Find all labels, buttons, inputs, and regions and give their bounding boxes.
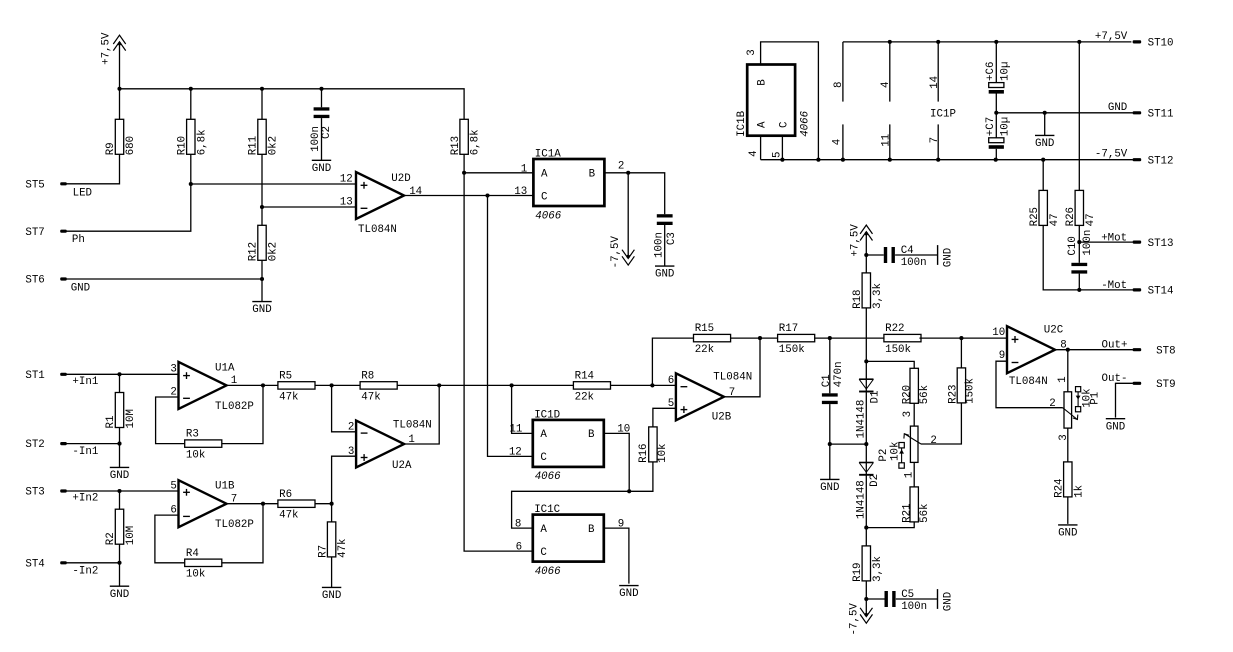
capacitor C5	[885, 591, 888, 607]
wire +Mot net	[1079, 241, 1133, 243]
wire C10 bottom lead	[1078, 274, 1080, 290]
wire R14 to U2B	[611, 384, 676, 386]
analog switch IC1C	[533, 515, 604, 562]
analog switch IC1A	[533, 159, 604, 206]
pin 8 stub IC1P	[842, 42, 844, 102]
svg-text:TL082P: TL082P	[215, 519, 254, 531]
ground below R7	[322, 586, 341, 588]
svg-text:R13: R13	[450, 136, 462, 155]
svg-text:R16: R16	[638, 443, 650, 462]
wire IC1D pin11 drop	[512, 385, 533, 433]
wire R19 top lead	[865, 528, 867, 546]
capacitor C10	[1071, 263, 1087, 266]
svg-text:ST8: ST8	[1156, 345, 1175, 357]
node R11-R12	[260, 205, 264, 209]
svg-text:GND: GND	[1058, 528, 1077, 540]
svg-text:4: 4	[832, 139, 844, 145]
pin ST2	[60, 442, 67, 445]
node +7,5V rail x996	[994, 40, 998, 44]
resistor R21	[910, 487, 918, 522]
svg-text:10M: 10M	[125, 409, 137, 428]
svg-text:1: 1	[521, 163, 527, 175]
pin 4b stub IC1P	[889, 42, 891, 102]
svg-text:470n: 470n	[833, 361, 845, 387]
svg-text:2: 2	[618, 161, 624, 173]
power -7,5V arrow at R19	[865, 613, 868, 616]
svg-text:2: 2	[1049, 398, 1055, 410]
wire to U2A +input	[332, 456, 357, 504]
wire R18 bottom lead	[865, 308, 867, 362]
node In1-R1	[117, 372, 121, 376]
svg-text:GND: GND	[820, 482, 839, 494]
resistor R17	[778, 334, 815, 341]
svg-text:150k: 150k	[964, 378, 976, 404]
svg-text:R21: R21	[902, 503, 914, 522]
analog switch IC1B	[747, 65, 795, 136]
wire R7 top lead	[331, 504, 333, 522]
resistor R22	[884, 334, 921, 341]
analog switch IC1D	[533, 420, 604, 467]
pin 4 stub IC1P	[842, 124, 844, 159]
svg-text:R9: R9	[105, 142, 117, 155]
svg-text:10k: 10k	[186, 450, 205, 462]
op-amp U2A	[356, 421, 404, 468]
svg-text:ST2: ST2	[25, 439, 44, 451]
svg-text:R7: R7	[317, 545, 329, 558]
resistor R23	[957, 368, 965, 403]
wire R4 to out	[222, 504, 263, 563]
node bus-R10	[189, 87, 193, 91]
wire U2C feedback	[996, 361, 1063, 408]
svg-text:R15: R15	[695, 323, 714, 335]
wire U2C output	[1055, 349, 1133, 351]
wire U2B +in to R16	[653, 408, 676, 427]
svg-text:3: 3	[1058, 434, 1070, 440]
wire P1 to R24	[1067, 428, 1069, 462]
svg-text:56k: 56k	[919, 385, 931, 404]
pin ST7	[60, 230, 67, 233]
svg-text:-7,5V: -7,5V	[1095, 149, 1128, 161]
svg-text:4066: 4066	[799, 110, 811, 136]
node GND net ST6	[260, 277, 264, 281]
svg-text:A: A	[541, 168, 548, 180]
pin ST14	[1133, 288, 1142, 291]
svg-text:R22: R22	[885, 323, 904, 335]
svg-text:+In1: +In1	[72, 376, 98, 388]
wire R19 bottom lead	[865, 581, 867, 599]
resistor R9	[115, 119, 123, 154]
svg-text:B: B	[756, 79, 768, 86]
node -In2	[117, 561, 121, 565]
wire IC1C output	[604, 528, 629, 584]
wire R25 top lead	[1042, 160, 1044, 191]
svg-text:100n: 100n	[653, 232, 665, 258]
svg-text:IC1D: IC1D	[534, 409, 560, 421]
svg-text:C1: C1	[821, 374, 833, 387]
node -Mot	[1077, 288, 1081, 292]
pin ST1	[60, 373, 67, 376]
node R6-R7	[330, 502, 334, 506]
wire R13 bottom lead	[463, 154, 465, 173]
svg-text:U2B: U2B	[712, 411, 732, 423]
wire R11 bottom lead	[261, 154, 263, 207]
wire R2 gnd drop	[119, 563, 121, 586]
wire R1 bottom lead	[119, 428, 121, 444]
svg-text:D2: D2	[869, 474, 881, 487]
svg-text:5: 5	[170, 480, 176, 492]
pin ST9	[1133, 382, 1142, 385]
svg-text:IC1A: IC1A	[535, 148, 561, 160]
svg-text:14: 14	[929, 76, 941, 89]
node D1-D2	[864, 442, 868, 446]
pin ST3	[60, 489, 67, 492]
svg-text:1: 1	[1057, 376, 1069, 382]
node -7,5V rail x1043	[1041, 158, 1045, 162]
pin ST6	[60, 277, 67, 280]
node R13-IC1A	[462, 171, 466, 175]
node -7,5V rail x818	[816, 158, 820, 162]
wire D2 vertical	[865, 444, 867, 527]
ground at Out-	[1106, 418, 1125, 420]
wire R12 to GND net	[261, 260, 263, 279]
wire U1B feedback	[155, 515, 185, 563]
wire R21 bottom lead	[866, 522, 914, 528]
node U2A out fb	[437, 383, 441, 387]
op-amp U2C	[1007, 326, 1055, 373]
node C1 tap	[828, 336, 832, 340]
svg-text:13: 13	[514, 186, 527, 198]
svg-text:U2D: U2D	[391, 173, 410, 185]
wire GND net ST6	[67, 278, 263, 280]
pin 11 stub IC1P	[889, 124, 891, 159]
wire gnd drop ST11	[1044, 113, 1046, 136]
wire LED net	[67, 154, 120, 184]
wire R20 to P2	[913, 403, 915, 426]
power -7,5V arrow at IC1A	[627, 255, 630, 258]
svg-text:1N4148: 1N4148	[856, 480, 868, 519]
svg-text:GND: GND	[942, 592, 954, 611]
wire to U2D -input	[262, 206, 356, 208]
wire +In1 net	[67, 373, 179, 375]
svg-text:3: 3	[746, 49, 758, 55]
pin ST5	[60, 182, 67, 185]
wire IC1D output	[604, 433, 629, 491]
svg-text:1k: 1k	[1073, 485, 1085, 498]
wire R26 top lead	[1078, 42, 1080, 191]
svg-text:100n: 100n	[901, 257, 927, 269]
svg-text:47k: 47k	[279, 391, 298, 403]
wire -In1 net	[67, 443, 120, 445]
wire node to IC1C pin8	[512, 491, 630, 528]
svg-text:D1: D1	[870, 391, 882, 404]
svg-text:GND: GND	[1106, 421, 1125, 433]
node bus-R11	[260, 87, 264, 91]
svg-text:R24: R24	[1054, 478, 1066, 497]
svg-text:14: 14	[409, 186, 422, 198]
resistor R12	[258, 225, 266, 260]
svg-text:10: 10	[992, 327, 1005, 339]
svg-text:150k: 150k	[779, 344, 805, 356]
node C5 tap	[864, 597, 868, 601]
wire R11 top lead	[261, 89, 263, 120]
svg-text:C: C	[540, 547, 547, 559]
wire C4 right	[895, 254, 938, 256]
svg-text:ST5: ST5	[25, 179, 44, 191]
electrolytic capacitor C6	[989, 83, 1004, 88]
wire U2C out to P1	[1067, 350, 1069, 392]
svg-text:3: 3	[170, 364, 176, 376]
resistor R2	[115, 509, 123, 544]
wire to -7,5V arrow	[865, 599, 867, 615]
svg-text:-In2: -In2	[72, 565, 98, 577]
svg-text:C: C	[540, 452, 547, 464]
svg-text:47k: 47k	[337, 538, 349, 557]
svg-text:R10: R10	[177, 136, 189, 155]
svg-text:ST1: ST1	[25, 370, 44, 382]
node Ph junction	[189, 182, 193, 186]
svg-text:3: 3	[902, 411, 914, 417]
wire U2B output	[724, 338, 760, 397]
wire R1 top lead	[119, 374, 121, 392]
svg-text:12: 12	[509, 447, 522, 459]
wire C4 left	[866, 254, 884, 256]
node +7,5V rail x1079	[1077, 40, 1081, 44]
resistor R26	[1075, 190, 1083, 225]
node +7,5V rail x938	[936, 40, 940, 44]
node R23 tap	[959, 336, 963, 340]
wire R10 top lead	[190, 89, 192, 120]
svg-text:56k: 56k	[919, 503, 931, 522]
wire U1B output	[227, 503, 278, 505]
svg-text:10µ: 10µ	[999, 117, 1011, 136]
wire U2D out to IC1A pin13	[488, 195, 534, 197]
op-amp U1B	[179, 480, 227, 527]
node D1 top	[864, 359, 868, 363]
node bus-C2	[319, 87, 323, 91]
wire R24 gnd drop	[1067, 497, 1069, 524]
wire bias bus	[120, 89, 465, 120]
svg-text:4: 4	[880, 82, 892, 88]
svg-text:6: 6	[668, 375, 674, 387]
node U1A out	[261, 383, 265, 387]
wire to R20	[866, 361, 914, 368]
wire R12 gnd drop	[261, 279, 263, 302]
svg-text:+C6: +C6	[985, 62, 997, 81]
pin ST12	[1133, 158, 1142, 161]
svg-text:+7,5V: +7,5V	[1095, 31, 1128, 43]
power +7,5V arrow at R18	[865, 232, 868, 235]
wire R2 bottom lead	[119, 544, 121, 563]
potentiometer P2	[910, 426, 918, 462]
svg-text:0k2: 0k2	[268, 136, 280, 155]
svg-text:47k: 47k	[279, 510, 298, 522]
svg-text:680: 680	[125, 136, 137, 155]
wire R7 gnd drop	[331, 557, 333, 588]
wire -In2 net	[67, 562, 120, 564]
wire U2A output	[404, 385, 439, 444]
svg-text:U2C: U2C	[1044, 325, 1064, 337]
power +7,5V supply arrow	[118, 42, 121, 45]
svg-text:3,3k: 3,3k	[872, 556, 884, 582]
svg-text:11: 11	[509, 424, 522, 436]
node D2-R19	[864, 526, 868, 530]
svg-text:GND: GND	[110, 589, 129, 601]
svg-text:100n: 100n	[1082, 230, 1094, 256]
wire R8 to R14 line	[397, 384, 573, 386]
svg-text:R8: R8	[361, 371, 374, 383]
node C4 tap	[864, 253, 868, 257]
wire R25 bottom lead	[1043, 225, 1133, 290]
node U2B -in	[650, 383, 654, 387]
svg-text:47: 47	[1085, 213, 1097, 226]
svg-text:-7,5V: -7,5V	[610, 235, 622, 268]
svg-text:8: 8	[515, 518, 521, 530]
node -7,5V rail x995	[994, 158, 998, 162]
wire U2D out down to IC1D pin12	[488, 196, 533, 457]
wire R11 to R12	[261, 207, 263, 225]
svg-text:GND: GND	[71, 282, 90, 294]
svg-text:ST13: ST13	[1148, 238, 1174, 250]
svg-text:47k: 47k	[361, 391, 380, 403]
resistor R19	[862, 546, 870, 581]
wire to IC1A pin1	[464, 172, 533, 174]
svg-text:6: 6	[516, 541, 522, 553]
wire R2 top lead	[119, 491, 121, 509]
svg-text:B: B	[588, 429, 595, 441]
ground below R2	[110, 585, 129, 587]
svg-text:R4: R4	[186, 548, 199, 560]
wire R22 to U2C	[919, 337, 1007, 339]
resistor R6	[278, 500, 315, 507]
svg-text:A: A	[540, 429, 547, 441]
svg-text:2: 2	[930, 435, 936, 447]
svg-text:U1B: U1B	[215, 481, 235, 493]
svg-text:P2: P2	[878, 449, 890, 462]
wire IC1A output	[604, 173, 664, 214]
svg-text:-7,5V: -7,5V	[849, 603, 861, 636]
wire C7 bottom lead	[995, 149, 997, 160]
electrolytic capacitor C7	[989, 138, 1004, 143]
wire C7 top lead	[995, 113, 997, 138]
diode D1	[859, 378, 873, 380]
wire arrow to C4 node	[865, 234, 867, 273]
node gnd drop	[1043, 111, 1047, 115]
svg-text:R3: R3	[186, 429, 199, 441]
node U2D out	[485, 193, 489, 197]
capacitor C3	[657, 214, 673, 217]
ground below C1	[820, 478, 839, 480]
svg-text:ST3: ST3	[25, 487, 44, 499]
svg-text:+7,5V: +7,5V	[849, 224, 861, 257]
svg-text:IC1P: IC1P	[930, 109, 956, 121]
svg-text:R23: R23	[948, 384, 960, 403]
op-amp U1A	[179, 362, 227, 409]
wire R6 to R7 node	[315, 503, 332, 505]
node -7,5V rail x938	[936, 158, 940, 162]
resistor R15	[694, 334, 731, 341]
svg-text:ST9: ST9	[1156, 379, 1175, 391]
wire C2 top lead	[321, 89, 323, 108]
svg-text:ST14: ST14	[1148, 286, 1174, 298]
svg-text:4066: 4066	[535, 471, 561, 483]
svg-text:C2: C2	[321, 126, 333, 139]
ground below IC1C	[619, 585, 638, 587]
svg-text:6,8k: 6,8k	[470, 129, 482, 155]
resistor R8	[360, 382, 397, 389]
op-amp U2D	[356, 172, 404, 219]
svg-text:1: 1	[903, 472, 915, 478]
svg-text:-In1: -In1	[72, 446, 98, 458]
node R5-R8	[330, 383, 334, 387]
svg-text:R5: R5	[279, 371, 292, 383]
capacitor C4	[884, 247, 887, 263]
svg-text:10k: 10k	[657, 443, 669, 462]
wire C5 right	[896, 598, 938, 600]
svg-text:-Mot: -Mot	[1101, 280, 1127, 292]
svg-text:C3: C3	[666, 232, 678, 245]
svg-text:GND: GND	[1108, 102, 1127, 114]
pin ST10	[1133, 40, 1142, 43]
svg-text:2: 2	[348, 422, 354, 434]
svg-text:22k: 22k	[575, 391, 594, 403]
wire to U2A -input	[332, 385, 357, 431]
svg-text:3: 3	[348, 446, 354, 458]
svg-text:R6: R6	[279, 489, 292, 501]
wire C1 gnd drop	[829, 444, 831, 479]
svg-text:R19: R19	[852, 562, 864, 581]
diode D2	[859, 462, 873, 464]
node U1B out	[261, 502, 265, 506]
svg-text:4066: 4066	[535, 566, 561, 578]
pin ST13	[1133, 241, 1142, 244]
svg-text:ST11: ST11	[1148, 109, 1174, 121]
svg-text:C10: C10	[1067, 236, 1079, 255]
wire R26 bottom lead	[1078, 225, 1080, 242]
wire IC1B pin3 jog	[761, 42, 819, 160]
wire P2 to R21	[913, 462, 915, 487]
wire D1 vertical	[865, 361, 867, 444]
node +Mot	[1077, 240, 1081, 244]
wire R3 to out	[222, 385, 263, 443]
wire GND net ST11	[996, 112, 1133, 114]
svg-text:R1: R1	[105, 416, 117, 429]
svg-text:TL084N: TL084N	[358, 224, 397, 236]
svg-text:R25: R25	[1029, 207, 1041, 226]
node C6-C7	[994, 111, 998, 115]
svg-text:10k: 10k	[1081, 388, 1093, 407]
pin 14 stub IC1P	[937, 42, 939, 102]
svg-text:ST10: ST10	[1148, 38, 1174, 50]
svg-text:47: 47	[1049, 213, 1061, 226]
node U2C out	[1066, 348, 1070, 352]
wire Ph net	[67, 184, 191, 231]
wire IC1A out to -7,5V	[627, 173, 629, 257]
wire R15-R17	[731, 337, 778, 339]
svg-text:B: B	[589, 168, 596, 180]
node bus-R9	[117, 87, 121, 91]
svg-text:9: 9	[999, 350, 1005, 362]
wire R15 left	[652, 338, 693, 385]
svg-text:+In2: +In2	[72, 493, 98, 505]
svg-text:Ph: Ph	[72, 234, 85, 246]
svg-text:TL084N: TL084N	[393, 419, 432, 431]
wire IC1B pin4	[760, 136, 762, 160]
capacitor C1	[822, 393, 838, 396]
svg-text:1N4148: 1N4148	[856, 400, 868, 439]
wire IC1B pin5	[781, 136, 783, 160]
svg-text:C: C	[541, 191, 548, 203]
svg-text:10µ: 10µ	[999, 62, 1011, 81]
